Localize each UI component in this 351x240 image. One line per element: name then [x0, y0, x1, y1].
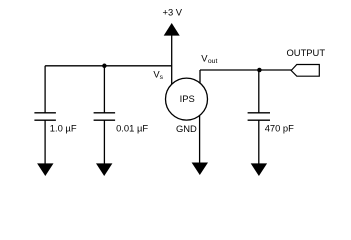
node Vout label [201, 53, 217, 66]
wire: C3 branch bottom [258, 120, 260, 166]
wire: IPS GND pin to ground [199, 112, 201, 164]
svg-text:out: out [208, 58, 218, 65]
ground: C3 [251, 163, 267, 176]
wire: C2 branch top [103, 66, 105, 113]
wire: Vout horizontal rail [200, 69, 292, 71]
ground: IPS GND [192, 163, 208, 176]
wire: C1 branch top [44, 66, 46, 113]
sensor U1 IPS body [166, 78, 208, 120]
junction: Vs rail / C2 branch [102, 64, 107, 69]
svg-text:1.0 µF: 1.0 µF [50, 123, 77, 134]
wire: C2 branch bottom [103, 120, 105, 166]
svg-text:OUTPUT: OUTPUT [287, 47, 326, 58]
connector OUTPUT tag [291, 65, 319, 77]
svg-text:GND: GND [176, 123, 197, 134]
junction: Vout rail / C3 branch [257, 68, 262, 73]
wire: Vs horizontal rail [45, 65, 172, 67]
svg-text:0.01 µF: 0.01 µF [116, 123, 148, 134]
svg-text:IPS: IPS [180, 93, 195, 104]
ground: C2 [96, 163, 112, 176]
svg-text:s: s [160, 74, 164, 81]
wire: C1 branch bottom [44, 120, 46, 166]
power +3V arrow [164, 23, 180, 36]
capacitor C2 [94, 113, 116, 120]
ground: C1 [37, 163, 53, 176]
capacitor C3 [248, 113, 270, 120]
svg-text:+3 V: +3 V [163, 7, 183, 18]
node Vs label [153, 68, 163, 81]
wire: C3 branch top [258, 70, 260, 113]
capacitor C1 [34, 113, 56, 120]
svg-text:470 pF: 470 pF [265, 123, 294, 134]
wire: +3V to IPS Vs pin [171, 34, 173, 85]
wire: IPS Vout pin vertical [199, 70, 201, 84]
